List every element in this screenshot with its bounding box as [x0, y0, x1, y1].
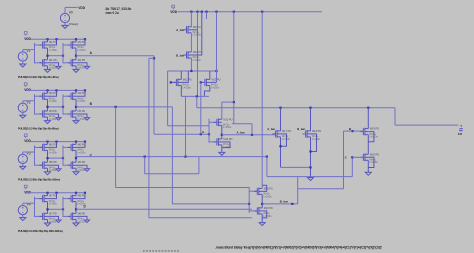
svg-text:M3 PU: M3 PU [49, 92, 57, 95]
node A output wire [75, 55, 77, 57]
svg-text:.tran 0 2u: .tran 0 2u [105, 11, 119, 15]
ground [56, 169, 61, 172]
svg-text:M8 PD: M8 PD [78, 212, 86, 215]
svg-text:PULSE(0 3.3 20n 50p 50p 20n 40: PULSE(0 3.3 20n 50p 50p 20n 40ns) [18, 75, 59, 79]
nmos M18 gate B_bar [305, 130, 307, 137]
node VDD rail 2 [172, 5, 175, 8]
svg-text:M5 PD: M5 PD [49, 161, 57, 164]
svg-text:M14 PD: M14 PD [223, 138, 232, 141]
svg-text:.lib 7SK17_033.lib: .lib 7SK17_033.lib [105, 7, 132, 11]
pmos M2P [70, 42, 72, 49]
svg-text:L=150n: L=150n [282, 138, 291, 141]
svg-text:L=150n: L=150n [263, 195, 272, 198]
nmos M6N [70, 162, 72, 169]
inverter stage M7 input bus [34, 197, 36, 217]
pmos M15 [256, 188, 258, 195]
status marks [143, 250, 145, 252]
nmos M4N [70, 111, 72, 118]
wire inverter1 out to inverter2 in [48, 157, 64, 159]
net VDD flag block C [24, 134, 27, 137]
svg-text:L=150n: L=150n [370, 161, 379, 164]
svg-text:L=150n: L=150n [263, 215, 272, 218]
wire branch from A [153, 57, 155, 59]
svg-text:M1 PD: M1 PD [49, 59, 57, 62]
svg-text:B_bar: B_bar [176, 53, 185, 57]
node B output wire [75, 106, 77, 108]
wire mystery drop [185, 96, 187, 156]
svg-text:L=150n: L=150n [77, 100, 86, 103]
svg-text:M13 PU: M13 PU [223, 118, 232, 121]
pmos M3P [42, 93, 44, 100]
wire net D [76, 208, 252, 210]
svg-text:B_bar: B_bar [297, 127, 306, 131]
svg-text:M11 PU: M11 PU [183, 78, 192, 81]
nmos M2N [70, 59, 72, 66]
inverter stage M2 input bus [62, 43, 64, 63]
VDD rail block B [26, 89, 85, 91]
nmos M16 [256, 207, 258, 214]
inverter B_bar input bus [248, 187, 250, 213]
svg-text:M3 PD: M3 PD [49, 110, 57, 113]
voltage source V3 [18, 154, 27, 163]
ground [20, 115, 26, 118]
svg-text:L=150n: L=150n [183, 86, 192, 89]
svg-text:{Vsup}: {Vsup} [69, 22, 78, 26]
voltage source V4 [18, 206, 27, 215]
ground [56, 118, 61, 121]
svg-text:L=150n: L=150n [312, 138, 321, 141]
capacitor C9 load [459, 128, 463, 130]
svg-text:L=150n: L=150n [193, 59, 202, 62]
nmos M8N [70, 213, 72, 220]
wire [22, 164, 24, 167]
inverter stage M3 input bus [34, 94, 36, 114]
ground [308, 178, 314, 181]
pmos M8P [70, 195, 72, 202]
voltage source V2 [18, 103, 27, 112]
wire supply inverter U_A [233, 12, 235, 124]
nmos M1N [42, 59, 44, 66]
svg-text:M16 PD: M16 PD [264, 207, 273, 210]
svg-text:A_bar: A_bar [237, 130, 246, 134]
ground [73, 172, 79, 175]
wire net B [76, 106, 172, 108]
ground [84, 118, 89, 121]
wire net B branch [115, 106, 117, 108]
wire node Y rail [197, 107, 395, 109]
wire net A [76, 55, 154, 57]
wire H1 to inverter input [167, 71, 169, 126]
nmos M5N [42, 162, 44, 169]
ground [56, 220, 61, 223]
ground [219, 152, 225, 155]
wire C loop [144, 157, 146, 174]
ground [84, 169, 89, 172]
wire [64, 23, 66, 26]
voltage source V0 [60, 13, 69, 22]
VDD rail block A [26, 38, 85, 40]
svg-text:M7 PU: M7 PU [49, 195, 57, 198]
svg-text:M4 PD: M4 PD [78, 110, 86, 113]
svg-text:L=150n: L=150n [49, 203, 58, 206]
wire input [22, 152, 24, 154]
inverter stage M8 input bus [62, 197, 64, 217]
wire VDD drop [197, 12, 199, 97]
svg-text:M7 PD: M7 PD [49, 212, 57, 215]
wire out A_bar to nmos M17 gate [221, 134, 223, 136]
svg-text:PULSE(0 3.3 40n 50p 50p 40n 80: PULSE(0 3.3 40n 50p 50p 40n 80ns) [18, 126, 59, 130]
svg-text:M19 PD: M19 PD [370, 128, 379, 131]
inverter stage M4 input bus [62, 94, 64, 114]
pmos M10 gate B_bar [186, 52, 188, 59]
net VDD flag block D [24, 185, 27, 188]
VDD rail block D [26, 192, 85, 194]
wire shared source [281, 166, 311, 168]
svg-text:M6 PD: M6 PD [78, 161, 86, 164]
wire M13 bulk tie [251, 124, 253, 135]
inverter A_bar input bus [208, 119, 210, 143]
svg-text:L=150n: L=150n [49, 49, 58, 52]
wire node Y top [181, 95, 209, 97]
svg-text:M1 PU: M1 PU [49, 41, 57, 44]
svg-text:M9 PU: M9 PU [193, 26, 201, 29]
pmos M4P [70, 93, 72, 100]
wire node H1 [190, 58, 192, 71]
svg-text:M17 PD: M17 PD [282, 130, 291, 133]
wire inverter1 out to inverter2 in [48, 106, 64, 108]
ground [73, 69, 79, 72]
svg-text:L=150n: L=150n [223, 126, 232, 129]
svg-text:VDD: VDD [170, 10, 177, 14]
svg-text:.meas Efund tdelay 'Keep*((V(N: .meas Efund tdelay 'Keep*((V(N)-V(N001))… [215, 246, 382, 250]
svg-text:B_bar: B_bar [280, 199, 289, 203]
pmos M6P [70, 144, 72, 151]
svg-text:L=150n: L=150n [370, 136, 379, 139]
ground [84, 66, 89, 69]
svg-text:Y: Y [460, 124, 462, 128]
VDD rail block C [26, 141, 85, 143]
wire [190, 33, 192, 52]
wire stub [206, 12, 208, 19]
voltage source V1 [18, 52, 27, 61]
pmos M9 gate A_bar [190, 12, 192, 27]
svg-text:M12 PU: M12 PU [211, 78, 220, 81]
ground [365, 172, 371, 175]
svg-text:A_bar: A_bar [176, 28, 185, 32]
wire [216, 12, 218, 83]
ground [45, 223, 51, 226]
ground [20, 218, 26, 221]
svg-text:PULSE(0 3.3 80n 50p 50p 80n 16: PULSE(0 3.3 80n 50p 50p 80n 160ns) [18, 178, 60, 182]
svg-text:L=150n: L=150n [77, 151, 86, 154]
ground [62, 25, 68, 28]
wire input [22, 203, 24, 205]
svg-text:M18 PD: M18 PD [312, 130, 321, 133]
svg-text:L=150n: L=150n [223, 146, 232, 149]
nmos M17 gate A_bar [275, 130, 277, 137]
nmos M20 gate C [362, 154, 364, 161]
svg-text:L=150n: L=150n [77, 49, 86, 52]
node C output wire [75, 157, 77, 159]
wire net C continued [199, 156, 267, 158]
nmos M14 [216, 138, 218, 145]
wire input [22, 101, 24, 103]
svg-text:L=150n: L=150n [49, 100, 58, 103]
ground [20, 64, 26, 67]
svg-text:PULSE(0 3.3 160n 50p 50p 160n: PULSE(0 3.3 160n 50p 50p 160n 320ns) [18, 229, 63, 233]
inverter stage M1 input bus [34, 43, 36, 63]
nmos M3N [42, 111, 44, 118]
ground [56, 66, 61, 69]
wire supply inverter U_B [261, 12, 263, 189]
pmos M13 [216, 119, 218, 126]
pmos M11 left of pair [175, 79, 177, 86]
pmos M7P [42, 195, 44, 202]
net VDD flag block A [24, 32, 27, 35]
ground [45, 121, 51, 124]
wire [22, 112, 24, 115]
svg-text:A_bar: A_bar [267, 127, 276, 131]
wire inverter1 out to inverter2 in [48, 55, 64, 57]
svg-text:M2 PU: M2 PU [78, 41, 86, 44]
svg-text:V0: V0 [69, 11, 73, 15]
inverter stage M5 input bus [34, 145, 36, 165]
node D output wire [75, 208, 77, 210]
wire out B_bar [261, 203, 263, 205]
ground [73, 223, 79, 226]
svg-text:M10 PU: M10 PU [193, 51, 202, 54]
wire input [22, 50, 24, 52]
svg-text:M4 PU: M4 PU [78, 92, 86, 95]
svg-text:L=150n: L=150n [49, 151, 58, 154]
svg-text:M2 PD: M2 PD [78, 59, 86, 62]
ground [84, 220, 89, 223]
wire [64, 7, 66, 13]
ground [45, 172, 51, 175]
inverter stage M6 input bus [62, 145, 64, 165]
wire [22, 61, 24, 64]
nmos M7N [42, 213, 44, 220]
svg-text:L=150n: L=150n [211, 86, 220, 89]
wire inverter1 out to inverter2 in [48, 208, 64, 210]
wire B_bar to stack gate [297, 177, 299, 204]
ground [259, 223, 265, 226]
ground [73, 121, 79, 124]
wire net C [76, 156, 199, 158]
ground [20, 166, 26, 169]
pmos M5P [42, 144, 44, 151]
net VDD flag block B [24, 83, 27, 86]
svg-text:10f: 10f [458, 132, 462, 136]
nmos M19 gate B [362, 128, 364, 135]
svg-text:L=150n: L=150n [193, 34, 202, 37]
svg-text:VDD: VDD [78, 6, 85, 10]
svg-text:M8 PU: M8 PU [78, 195, 86, 198]
svg-text:M20 PD: M20 PD [370, 153, 379, 156]
svg-text:M6 PU: M6 PU [78, 143, 86, 146]
pmos M12 right of pair [204, 79, 206, 86]
svg-text:M15 PU: M15 PU [264, 187, 273, 190]
svg-text:M5 PU: M5 PU [49, 143, 57, 146]
pmos M1P [42, 42, 44, 49]
wire [22, 215, 24, 218]
ground [45, 69, 51, 72]
